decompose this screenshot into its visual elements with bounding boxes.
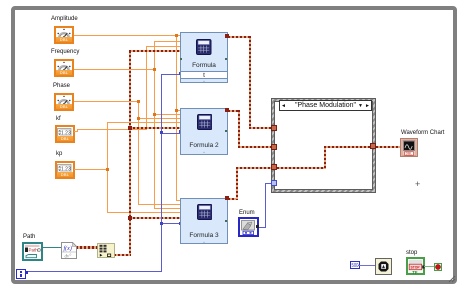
svg-text:DBL: DBL	[406, 152, 413, 156]
svg-text:f(x): f(x)	[64, 244, 72, 251]
svg-text:TF: TF	[412, 269, 418, 274]
svg-text:dv°: dv°	[65, 254, 72, 259]
svg-text:Path: Path	[29, 248, 39, 253]
